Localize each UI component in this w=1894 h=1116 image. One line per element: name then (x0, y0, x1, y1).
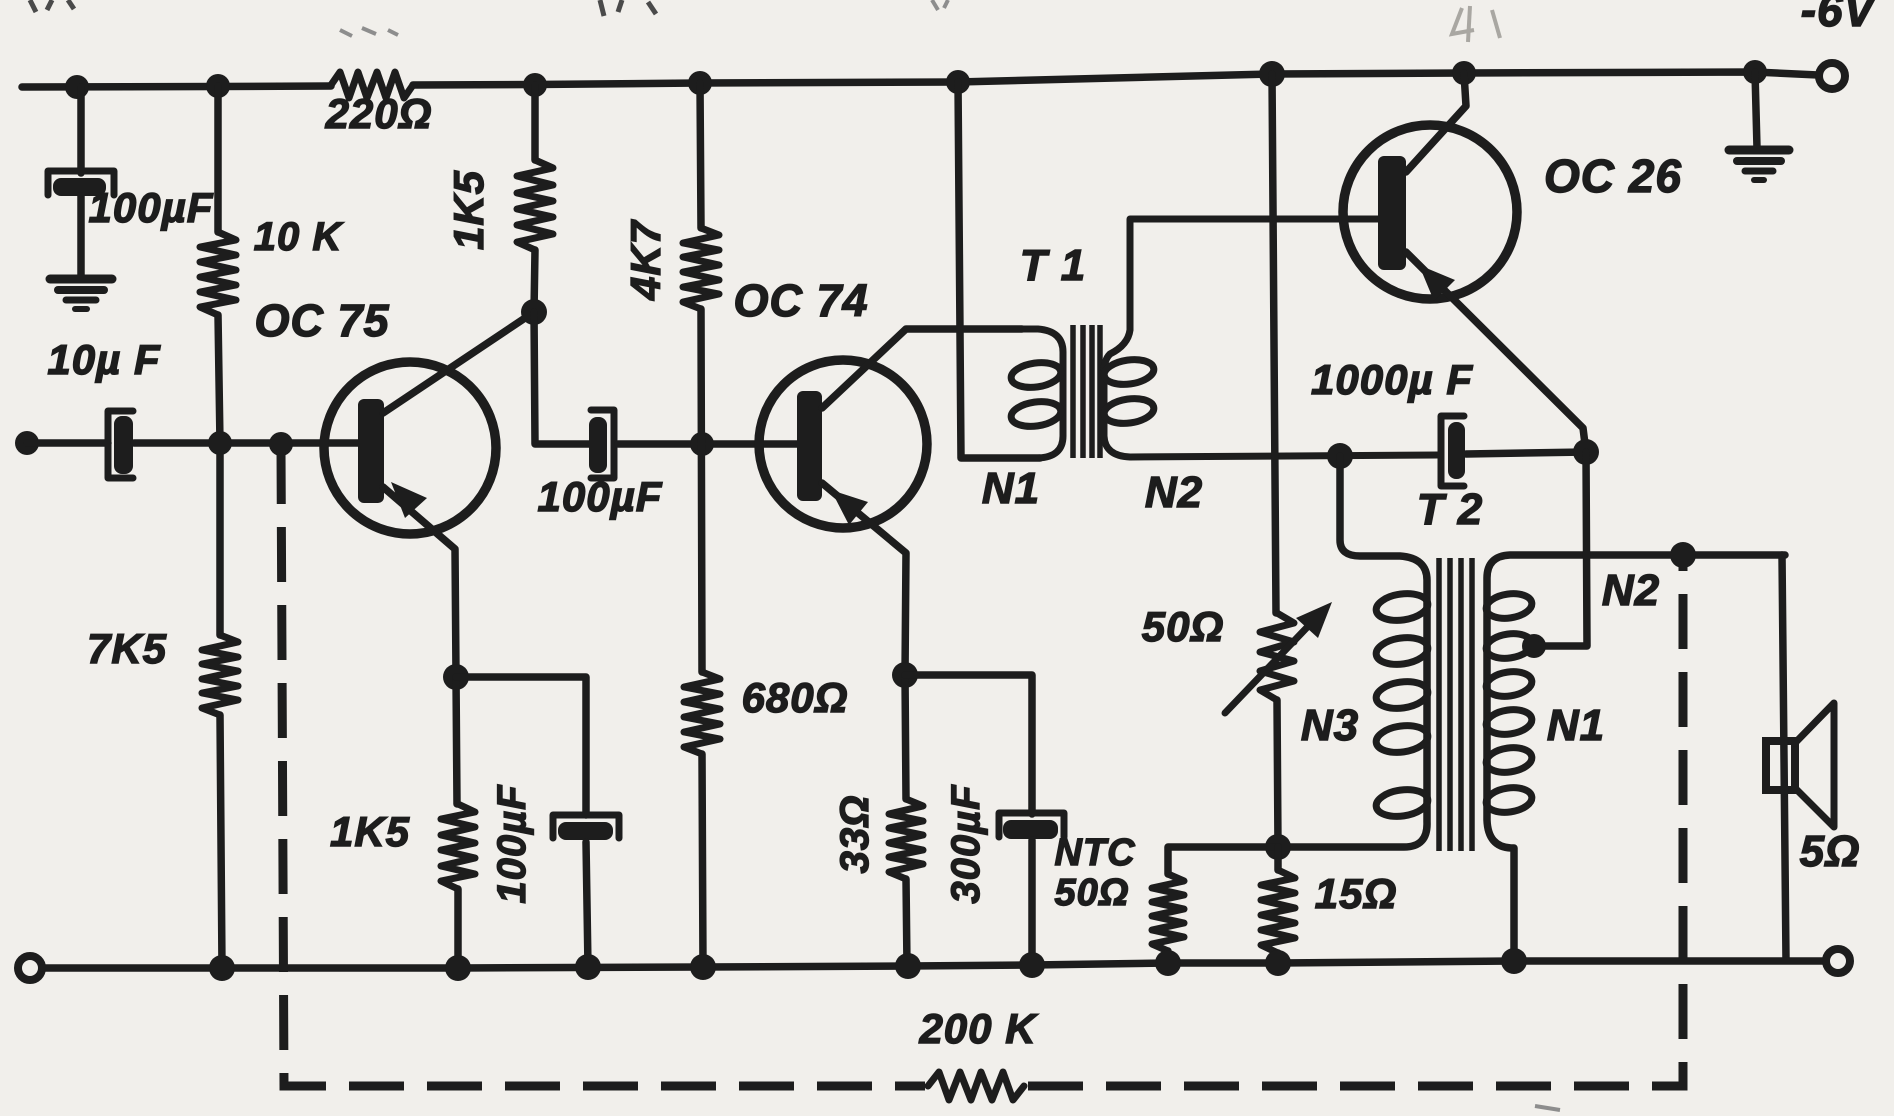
svg-text:T 1: T 1 (1020, 241, 1087, 290)
svg-text:50Ω: 50Ω (1142, 603, 1225, 650)
transistor Q3 emitter lead (1406, 252, 1586, 452)
resistor R6 680Ω (684, 672, 720, 754)
svg-text:10µ F: 10µ F (47, 336, 161, 383)
wire R8 to bottom rail (454, 889, 462, 968)
svg-text:220Ω: 220Ω (325, 90, 433, 137)
transformer T1 secondary N2 loop 1 (1103, 357, 1156, 388)
junction node on top rail x=958 (946, 70, 970, 94)
capacitor C2 10µF (solid plate) (114, 416, 133, 474)
scan artifact top x=600 (600, 0, 656, 16)
resistor R7 33Ω (889, 799, 923, 879)
junction node collector Q1 (521, 299, 547, 325)
svg-text:10 K: 10 K (254, 215, 345, 259)
junction node on top rail x=1755 (1743, 60, 1767, 84)
transformer T2 right winding N2+N1 (outline) (1487, 555, 1785, 961)
junction node bottom rail x=222 (209, 955, 235, 981)
transistor Q2 collector lead (822, 329, 1022, 408)
capacitor C1 100µF (plate bracket) (48, 171, 114, 195)
junction node bottom rail x=588 (575, 954, 601, 980)
ground symbol (left) (50, 279, 112, 309)
transformer T2 winding N3 loop 3 (1374, 679, 1429, 712)
transistor Q3 base bar (1378, 156, 1406, 270)
transformer T2 winding N1 loop 1 (1485, 631, 1534, 661)
svg-text:1000µ F: 1000µ F (1311, 356, 1473, 403)
svg-text:5Ω: 5Ω (1800, 827, 1861, 876)
svg-text:100µF: 100µF (490, 784, 534, 904)
resistor R9 15Ω (1261, 870, 1295, 953)
junction node base wire x=220 (208, 431, 232, 455)
transformer T2 winding N1 loop 3 (1485, 707, 1534, 737)
capacitor C4 300µF (plate bracket) (999, 813, 1064, 837)
wire rail to R4 1K5 (531, 85, 539, 160)
transformer T2 winding N3 loop 1 (1374, 591, 1429, 624)
resistor R2 10K (200, 232, 236, 315)
svg-text:7K5: 7K5 (87, 625, 167, 672)
svg-text:N3: N3 (1301, 701, 1359, 750)
transformer T2 winding N1 loop 5 (1485, 785, 1534, 815)
wire collector node down to C3 (534, 312, 589, 444)
svg-text:-6V: -6V (1801, 0, 1878, 36)
wire feedback (dashed, bottom right and right leg) (1028, 566, 1683, 1086)
wire rail to C1 (77, 87, 85, 173)
junction node T2 tap (1522, 634, 1546, 658)
transformer T2 winding N1 loop 4 (1485, 745, 1534, 775)
wire C4 to bottom rail (1028, 840, 1036, 965)
svg-text:N2: N2 (1145, 468, 1203, 517)
wire rail to R2 10K (214, 86, 222, 232)
junction node on top rail x=535 (523, 73, 547, 97)
wire Q2 emitter node to C4 (905, 675, 1032, 814)
transformer T1 core (1073, 325, 1100, 458)
wire R5 to R6 (701, 309, 702, 672)
resistor R4 1K5 (517, 160, 553, 250)
resistor R1 220Ω on top rail (331, 72, 413, 98)
transistor Q1 emitter arrow (391, 482, 427, 518)
wire input node to R3 7K5 (216, 443, 224, 635)
scan artifact top x=1460 (ghost 4) (1452, 6, 1500, 42)
transformer T2 winding N2 loop (1485, 591, 1534, 621)
wire R6 to bottom rail (702, 754, 703, 967)
capacitor C3 100µF (solid plate) (589, 417, 607, 473)
capacitor C1 100µF (solid plate) (53, 178, 106, 196)
transformer T2 winding N1 loop 2 (1485, 669, 1534, 699)
junction node on top rail x=1464 (1452, 61, 1476, 85)
junction node on top rail x=218 (206, 74, 230, 98)
wire feedback (dashed, left leg and bottom left) (281, 449, 925, 1086)
transformer T1 secondary N2 (outline, riser to OC26 base) (1104, 219, 1438, 457)
svg-text:OC 26: OC 26 (1544, 150, 1682, 202)
wire NTC top (1168, 847, 1278, 874)
variable resistor VR1 50Ω (1260, 613, 1294, 700)
capacitor C2 10µF (plate bracket) (108, 411, 133, 478)
svg-text:33Ω: 33Ω (833, 795, 877, 874)
wire Q1 emitter node to R8 (456, 677, 457, 804)
transistor Q1 OC75 (envelope circle) (324, 362, 496, 534)
capacitor C5 100µF (plate bracket) (553, 815, 619, 838)
svg-text:T 2: T 2 (1417, 485, 1484, 534)
terminal bottom right (open circle) (1826, 949, 1850, 973)
junction node N3 bottom x=1278 (1265, 834, 1291, 860)
wire Q1 emitter node to C5 (456, 677, 586, 815)
wire rail to ground (right) (1755, 72, 1757, 148)
wire C3 to OC74 base (618, 440, 798, 448)
speaker LS1 (horn) (1795, 703, 1834, 827)
svg-text:200 K: 200 K (918, 1005, 1038, 1052)
svg-text:OC 75: OC 75 (254, 295, 389, 346)
wire bottom rail (42, 961, 1825, 968)
junction node bottom rail x=703 (690, 954, 716, 980)
junction node bottom rail x=1168 (1155, 950, 1181, 976)
transformer T2 winding N3 loop 5 (1374, 787, 1429, 820)
transistor Q2 base bar (797, 391, 822, 501)
svg-text:1K5: 1K5 (330, 808, 410, 855)
wire C2 to OC75 base (134, 439, 358, 447)
wire R4 to collector node (534, 250, 535, 312)
transformer T1 secondary N2 loop 2 (1103, 396, 1156, 427)
resistor R3 7K5 (202, 635, 238, 715)
capacitor C6 1000µF (plate bracket) (1441, 416, 1464, 486)
terminal bottom left (open circle) (18, 956, 42, 980)
resistor R10 200K (feedback) (928, 1072, 1024, 1100)
thermistor NTC 50Ω (1152, 874, 1184, 951)
svg-text:N2: N2 (1602, 566, 1660, 615)
input terminal (solid dot) (15, 431, 39, 455)
svg-text:50Ω: 50Ω (1055, 872, 1130, 914)
svg-text:680Ω: 680Ω (742, 674, 849, 721)
wire rail to R5 4K7 (700, 83, 701, 228)
resistor R8 1K5 (441, 804, 475, 889)
wire node to R9 (1274, 847, 1282, 870)
wire C6 to Q3 emitter node (1466, 452, 1586, 454)
svg-text:NTC: NTC (1054, 832, 1135, 874)
wire T2 tap to Q3 emitter node (1533, 452, 1587, 646)
wire C5 to bottom rail (586, 842, 588, 967)
transformer T1 primary N1 loop 1 (1010, 360, 1063, 391)
wire C1 to ground (77, 196, 85, 278)
junction node Q2 emitter (892, 662, 918, 688)
terminal -6V (open circle, top right) (1819, 63, 1845, 89)
transformer T1 primary N1 (outline) (906, 329, 1063, 458)
junction node base bias Q2 x=702 (690, 432, 714, 456)
wire R3 to bottom rail (220, 715, 222, 968)
transistor Q2 OC74 (envelope circle) (759, 360, 927, 528)
scan artifact bottom right (1535, 1106, 1560, 1110)
svg-text:1K5: 1K5 (445, 170, 492, 250)
svg-text:15Ω: 15Ω (1315, 870, 1398, 917)
wire input to C2 (27, 439, 108, 447)
junction node bottom rail x=1032 (1019, 952, 1045, 978)
transistor Q1 base bar (358, 399, 384, 503)
wire rail down to VR1 50Ω (1272, 74, 1276, 613)
transistor Q1 collector lead (383, 312, 534, 413)
junction node bottom rail x=1514 (1501, 948, 1527, 974)
svg-text:100µF: 100µF (538, 473, 663, 520)
junction node on top rail x=77 (65, 75, 89, 99)
junction node Q3 emitter / T2 top (1573, 439, 1599, 465)
wire mid-rail node down to T2 N3 (outline) (1283, 456, 1427, 847)
transistor Q2 emitter lead (822, 483, 906, 675)
transistor Q3 OC26 (envelope circle) (1343, 125, 1517, 299)
wire rail to T1 N1 bottom (958, 82, 1040, 458)
variable resistor VR1 arrow (1225, 602, 1332, 713)
junction node base wire x=281 (feedback tap) (269, 432, 293, 456)
scan artifact above 220R (340, 28, 398, 36)
svg-text:N1: N1 (1547, 701, 1605, 750)
capacitor C4 300µF (solid plate) (1003, 820, 1058, 839)
transistor Q2 emitter arrow (831, 490, 868, 525)
junction node bottom rail x=908 (895, 953, 921, 979)
transistor Q3 emitter arrow (1419, 265, 1455, 301)
wire R2 to input node (218, 315, 220, 443)
junction node bottom rail x=458 (445, 955, 471, 981)
junction node on top rail x=1272 (1259, 61, 1285, 87)
wire Q2 emitter node to R7 (905, 675, 906, 799)
svg-text:N1: N1 (982, 464, 1040, 513)
scan artifact top x=935 (932, 0, 948, 10)
transformer T2 winding N3 loop 4 (1374, 723, 1429, 756)
wire N2 to speaker (1782, 555, 1786, 960)
capacitor C3 100µF (plate bracket) (591, 410, 614, 478)
wire VR1 to node (1277, 700, 1278, 847)
wire R9 to bottom rail (1274, 953, 1282, 963)
junction node bottom rail x=1278 (1265, 950, 1291, 976)
transformer T2 winding N3 loop 2 (1374, 635, 1429, 668)
wire R7 to bottom rail (906, 879, 907, 966)
junction node Q1 emitter (443, 664, 469, 690)
transformer T2 core (1439, 558, 1472, 851)
svg-text:4K7: 4K7 (622, 219, 669, 301)
svg-text:OC 74: OC 74 (733, 275, 868, 326)
capacitor C5 100µF (solid plate) (558, 822, 613, 840)
svg-text:300µF: 300µF (944, 784, 988, 904)
capacitor C6 1000µF (solid plate) (1448, 422, 1465, 479)
speaker LS1 (driver box) (1766, 741, 1795, 790)
ground symbol (top right) (1729, 150, 1789, 180)
scan artifact top-left (30, 0, 74, 12)
junction node mid rail x=1340 (1327, 443, 1353, 469)
transistor Q1 emitter lead (383, 487, 456, 674)
svg-text:100µF: 100µF (89, 184, 214, 231)
wire NTC to bottom rail (1164, 951, 1172, 963)
wire top supply rail (right of 220R) (413, 72, 1818, 85)
resistor R5 4K7 (683, 228, 719, 309)
junction node N2 feedback tap (1670, 542, 1696, 568)
transistor Q3 collector lead to rail (1406, 73, 1466, 172)
wire top supply rail (left of 220R) (22, 86, 331, 87)
junction node on top rail x=700 (688, 71, 712, 95)
transformer T1 primary N1 loop 2 (1010, 399, 1063, 430)
